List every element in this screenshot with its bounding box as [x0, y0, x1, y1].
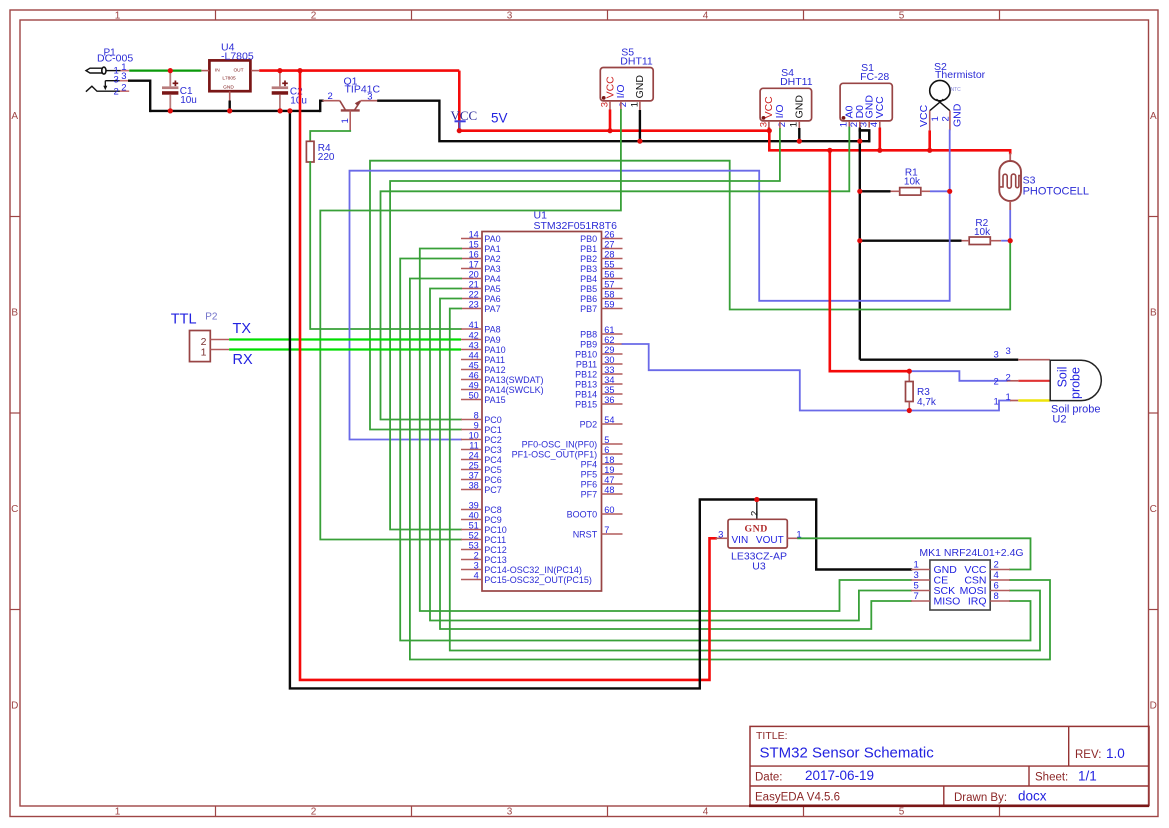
U1 pin 5 PF0-OSC_IN(PF0) — [602, 443, 623, 445]
U1 pin 30 PB11 — [602, 363, 623, 365]
wire red S2.VCC — [928, 130, 931, 150]
svg-text:PB14: PB14 — [575, 389, 597, 399]
U4 IN stub — [201, 70, 209, 72]
svg-text:5: 5 — [899, 806, 905, 817]
svg-text:8: 8 — [994, 591, 999, 602]
MK1 pin 8 IRQ — [990, 600, 1010, 602]
svg-text:29: 29 — [604, 345, 614, 355]
svg-text:PF4: PF4 — [581, 459, 598, 469]
svg-text:PB11: PB11 — [576, 359, 597, 369]
svg-text:IN: IN — [215, 68, 220, 74]
junction C1 top on +9V input — [168, 68, 173, 73]
junction R2 left on black vertical — [857, 238, 862, 243]
svg-text:C: C — [11, 504, 18, 515]
svg-text:GND: GND — [794, 95, 806, 119]
svg-text:47: 47 — [604, 475, 614, 485]
svg-text:PC5: PC5 — [484, 465, 502, 475]
svg-text:PC10: PC10 — [484, 525, 507, 535]
svg-text:PA10: PA10 — [484, 345, 505, 355]
U1 pin 23 PA7 — [461, 308, 482, 310]
svg-text:18: 18 — [604, 455, 614, 465]
svg-text:8: 8 — [474, 411, 479, 421]
U1 pin 43 PA10 — [461, 349, 482, 351]
junction S4 GND on GND bus — [797, 139, 802, 144]
svg-text:1: 1 — [789, 122, 800, 127]
title block — [750, 726, 1149, 805]
wire red S1.VCC — [878, 128, 881, 151]
svg-text:36: 36 — [604, 395, 614, 405]
connector S1 FC-28 — [840, 83, 892, 121]
svg-text:GND: GND — [223, 85, 234, 91]
MK1 pin 3 CE — [911, 579, 930, 581]
U1 pin 54 PD2 — [602, 423, 623, 425]
svg-text:3: 3 — [474, 561, 479, 571]
U1 pin 62 PB9 — [602, 343, 623, 345]
svg-text:58: 58 — [604, 290, 614, 300]
svg-text:D: D — [1150, 700, 1157, 711]
wire bright green RX to PA10 — [229, 348, 461, 350]
svg-text:35: 35 — [604, 385, 614, 395]
svg-text:PC8: PC8 — [484, 505, 502, 515]
wire green PA7 to MK1.MOSI — [450, 309, 1040, 651]
U1 pin 51 PC10 — [461, 529, 482, 531]
U1 pin 38 PC7 — [461, 489, 482, 491]
svg-text:2017-06-19: 2017-06-19 — [805, 768, 874, 783]
wire black P1.3 to GND bus — [129, 81, 150, 111]
svg-text:33: 33 — [604, 365, 614, 375]
svg-text:220: 220 — [318, 152, 335, 163]
svg-text:IRQ: IRQ — [968, 596, 987, 608]
svg-text:PHOTOCELL: PHOTOCELL — [1023, 185, 1089, 197]
capacitor C2 10u — [279, 71, 281, 87]
svg-text:docx: docx — [1018, 789, 1047, 804]
junction GND bus to bottom feed — [287, 108, 292, 113]
svg-text:44: 44 — [469, 351, 479, 361]
junction 5V rail to bottom feed — [297, 68, 302, 73]
svg-text:GND: GND — [951, 103, 963, 127]
connector P2 TTL — [190, 331, 211, 362]
svg-text:49: 49 — [469, 381, 479, 391]
svg-text:PB2: PB2 — [580, 254, 597, 264]
svg-text:STM32 Sensor Schematic: STM32 Sensor Schematic — [760, 745, 935, 762]
junction S5 VCC on 5V bus — [607, 128, 612, 133]
svg-text:24: 24 — [469, 451, 479, 461]
svg-text:PA5: PA5 — [484, 284, 500, 294]
svg-text:39: 39 — [469, 501, 479, 511]
svg-text:PB4: PB4 — [580, 274, 597, 284]
svg-text:PC13: PC13 — [484, 555, 507, 565]
svg-text:A: A — [11, 111, 18, 122]
wire black to R1 — [860, 190, 891, 192]
svg-text:TTL: TTL — [171, 312, 197, 328]
svg-text:C: C — [1150, 504, 1157, 515]
U1 pin 56 PB4 — [602, 278, 623, 280]
wire yellow soil probe pin1 — [1018, 399, 1050, 401]
svg-text:Sheet:: Sheet: — [1035, 772, 1068, 784]
svg-text:PB0: PB0 — [580, 234, 597, 244]
U1 pin 20 PA4 — [461, 278, 482, 280]
wire red 5V rail down-around to U3.VIN — [300, 71, 716, 680]
regulator U4 -L7805 box — [209, 60, 250, 91]
svg-text:NRST: NRST — [573, 529, 598, 539]
svg-text:21: 21 — [469, 280, 479, 290]
wire blue R2 to S3 — [1001, 240, 1010, 242]
svg-text:1: 1 — [1006, 392, 1011, 403]
svg-text:PC6: PC6 — [484, 475, 502, 485]
svg-text:PA4: PA4 — [484, 274, 500, 284]
svg-text:PC1: PC1 — [484, 425, 502, 435]
svg-text:VCC: VCC — [918, 104, 930, 127]
svg-text:4: 4 — [994, 570, 999, 581]
svg-text:50: 50 — [469, 391, 479, 401]
svg-text:RX: RX — [233, 352, 253, 368]
U1 pin 47 PF6 — [602, 483, 623, 485]
U1 pin 44 PA11 — [461, 359, 482, 361]
svg-text:25: 25 — [469, 461, 479, 471]
svg-text:PF0-OSC_IN(PF0): PF0-OSC_IN(PF0) — [522, 439, 598, 449]
svg-text:U3: U3 — [752, 561, 766, 573]
U1 pin 52 PC11 — [461, 539, 482, 541]
svg-text:VIN: VIN — [732, 535, 749, 546]
svg-text:10: 10 — [469, 431, 479, 441]
svg-text:VOUT: VOUT — [756, 535, 784, 546]
svg-text:U2: U2 — [1052, 414, 1066, 426]
U1 pin 18 PF4 — [602, 463, 623, 465]
svg-text:2: 2 — [311, 806, 317, 817]
svg-text:DHT11: DHT11 — [780, 76, 813, 88]
svg-text:probe: probe — [1069, 367, 1083, 399]
U1 pin 26 PB0 — [602, 238, 623, 240]
svg-text:43: 43 — [469, 341, 479, 351]
svg-text:60: 60 — [604, 505, 614, 515]
U1 pin 16 PA2 — [461, 258, 482, 260]
U1 pin 8 PC0 — [461, 419, 482, 421]
connector S4 DHT11 — [760, 88, 812, 121]
svg-text:2: 2 — [750, 511, 761, 516]
U1 pin 35 PB14 — [602, 393, 623, 395]
wire black Q1.3 collector to sensor GND bus — [378, 101, 869, 142]
U1 pin 11 PC3 — [461, 449, 482, 451]
svg-text:PC11: PC11 — [484, 535, 506, 545]
U4 GND pin — [229, 91, 231, 100]
svg-text:PC15-OSC32_OUT(PC15): PC15-OSC32_OUT(PC15) — [484, 575, 592, 585]
svg-text:D: D — [11, 700, 18, 711]
wire blue R3 top to soil probe pin2 — [909, 371, 1006, 381]
svg-text:4: 4 — [703, 806, 709, 817]
svg-text:PB3: PB3 — [580, 264, 597, 274]
wire green S1.A0 to PC0 — [381, 128, 850, 420]
svg-text:MISO: MISO — [934, 596, 961, 608]
U1 pin 59 PB7 — [602, 308, 623, 310]
svg-text:B: B — [11, 307, 18, 318]
U1 pin 61 PB8 — [602, 333, 623, 335]
svg-text:1: 1 — [914, 559, 919, 570]
svg-text:PA14(SWCLK): PA14(SWCLK) — [484, 385, 543, 395]
regulator U3 LE33CZ-AP — [728, 519, 787, 548]
wire black GND rail down-around to MK1.GND — [290, 111, 911, 689]
MK1 pin 1 GND — [911, 569, 930, 571]
svg-text:56: 56 — [604, 270, 614, 280]
svg-text:PB12: PB12 — [575, 369, 597, 379]
wire red VCC bus to sensors — [459, 129, 769, 132]
svg-text:-L7805: -L7805 — [221, 51, 254, 63]
wire red VCC drop to R3 — [830, 150, 910, 371]
soil probe U2 — [1018, 359, 1050, 361]
wire green R4 to PA8 — [310, 162, 461, 329]
svg-text:1: 1 — [115, 10, 121, 21]
svg-text:2: 2 — [994, 559, 999, 570]
U1 pin 57 PB5 — [602, 288, 623, 290]
svg-text:4: 4 — [703, 10, 709, 21]
U1 pin 10 PC2 — [461, 439, 482, 441]
svg-text:3: 3 — [1006, 346, 1011, 357]
junction VCC flag on 5V bus — [457, 128, 462, 133]
svg-text:PB10: PB10 — [575, 349, 597, 359]
svg-text:B: B — [1150, 307, 1157, 318]
svg-text:PA11: PA11 — [484, 355, 505, 365]
svg-text:62: 62 — [604, 335, 614, 345]
wire blue S2.GND down to R1 and PC2 — [350, 130, 950, 439]
svg-text:53: 53 — [469, 541, 479, 551]
svg-text:2: 2 — [777, 122, 788, 127]
wire green PA5 to MK1.SCK — [430, 289, 911, 621]
svg-text:3: 3 — [114, 75, 119, 86]
svg-text:19: 19 — [604, 465, 614, 475]
U1 pin 34 PB13 — [602, 383, 623, 385]
U1 pin 27 PB1 — [602, 248, 623, 250]
svg-text:15: 15 — [469, 240, 479, 250]
U1 pin 50 PA15 — [461, 399, 482, 401]
svg-text:PA8: PA8 — [484, 324, 500, 334]
junction R3 feed on lower VCC bus — [827, 148, 832, 153]
U1 pin 29 PB10 — [602, 353, 623, 355]
svg-text:PA7: PA7 — [484, 304, 500, 314]
U1 pin 15 PA1 — [461, 248, 482, 250]
svg-text:37: 37 — [469, 471, 479, 481]
svg-text:VCC: VCC — [874, 96, 886, 119]
svg-text:A: A — [1150, 111, 1157, 122]
svg-text:59: 59 — [604, 300, 614, 310]
svg-text:57: 57 — [604, 280, 614, 290]
transistor Q1 TIP41C — [323, 100, 340, 102]
svg-text:10k: 10k — [974, 227, 991, 238]
svg-text:1: 1 — [994, 397, 999, 408]
svg-text:1: 1 — [839, 122, 850, 127]
connector S5 DHT11 — [600, 68, 653, 101]
svg-text:22: 22 — [469, 290, 479, 300]
U1 pin 3 PC14-OSC32_IN(PC14) — [461, 569, 482, 571]
wire black S1.D0 to soil probe pin3 — [860, 359, 1019, 361]
svg-text:Date:: Date: — [755, 771, 783, 783]
svg-text:1.0: 1.0 — [1106, 746, 1125, 761]
U3 GND pin stub — [756, 500, 758, 520]
wire black S1.GND jog — [860, 130, 869, 141]
U1 pin 53 PC12 — [461, 549, 482, 551]
svg-text:3: 3 — [758, 122, 769, 127]
wire black S1.D0 down — [859, 128, 861, 360]
svg-text:PA1: PA1 — [484, 244, 500, 254]
svg-text:EasyEDA V4.5.6: EasyEDA V4.5.6 — [755, 792, 840, 804]
svg-text:PF5: PF5 — [581, 469, 598, 479]
svg-text:PC3: PC3 — [484, 445, 502, 455]
U1 pin 45 PA12 — [461, 369, 482, 371]
U4 OUT stub — [251, 70, 259, 72]
svg-text:PA12: PA12 — [484, 365, 505, 375]
MK1 pin 7 MISO — [911, 600, 930, 602]
svg-text:23: 23 — [469, 300, 479, 310]
svg-text:3: 3 — [994, 350, 999, 361]
svg-text:PA3: PA3 — [484, 264, 500, 274]
P1 switch arrow — [104, 81, 106, 88]
svg-text:5: 5 — [604, 435, 609, 445]
svg-text:3: 3 — [367, 91, 372, 102]
resistor R3 4,7k — [908, 371, 910, 381]
U1 pin 14 PA0 — [461, 238, 482, 240]
svg-text:4: 4 — [869, 122, 880, 127]
svg-text:PB1: PB1 — [580, 244, 597, 254]
module MK1 NRF24L01+2.4G — [930, 560, 990, 610]
svg-text:I/O: I/O — [774, 104, 786, 118]
svg-text:DC-005: DC-005 — [97, 53, 133, 65]
U1 pin 55 PB3 — [602, 268, 623, 270]
U1 pin 42 PA9 — [461, 339, 482, 341]
svg-text:1: 1 — [115, 806, 121, 817]
svg-text:10k: 10k — [904, 176, 921, 187]
U1 pin 33 PB12 — [602, 373, 623, 375]
svg-text:10u: 10u — [180, 95, 197, 106]
svg-text:Thermistor: Thermistor — [935, 69, 986, 81]
U1 pin 9 PC1 — [461, 429, 482, 431]
U1 pin 25 PC5 — [461, 469, 482, 471]
wire black to R2 — [860, 239, 962, 241]
junction S2 VCC on lower VCC bus — [927, 148, 932, 153]
svg-text:Drawn By:: Drawn By: — [954, 792, 1007, 804]
svg-text:4: 4 — [474, 571, 479, 581]
svg-text:30: 30 — [604, 355, 614, 365]
svg-text:2: 2 — [1006, 373, 1011, 384]
svg-text:PA13(SWDAT): PA13(SWDAT) — [484, 375, 543, 385]
svg-text:TITLE:: TITLE: — [756, 730, 788, 742]
U1 pin 22 PA6 — [461, 298, 482, 300]
svg-text:1: 1 — [930, 116, 941, 121]
svg-text:GND: GND — [745, 524, 768, 535]
svg-text:55: 55 — [604, 260, 614, 270]
S5 pin stubs — [609, 101, 611, 110]
svg-text:PA6: PA6 — [484, 294, 500, 304]
wire blue R1 to S2.GND net — [930, 190, 950, 192]
svg-text:2: 2 — [114, 86, 119, 97]
wire green PA1 to MK1.CE — [420, 249, 911, 612]
svg-text:7: 7 — [604, 525, 609, 535]
MK1 pin 2 VCC — [990, 569, 1010, 571]
wire blue PB9 to soil probe pin1 — [623, 344, 1011, 411]
svg-text:P2: P2 — [205, 312, 218, 323]
svg-text:46: 46 — [469, 371, 479, 381]
U1 pin 2 PC13 — [461, 559, 482, 561]
resistor R4 220 — [306, 141, 314, 162]
svg-text:PB13: PB13 — [575, 379, 597, 389]
svg-text:3: 3 — [507, 806, 513, 817]
wire red VCC bus drop at S4 — [768, 131, 771, 151]
svg-text:26: 26 — [604, 230, 614, 240]
svg-text:TX: TX — [233, 321, 252, 337]
wire bright green TX to PA9 — [229, 338, 461, 340]
svg-text:45: 45 — [469, 361, 479, 371]
U1 pin 36 PB15 — [602, 403, 623, 405]
svg-text:1: 1 — [629, 102, 640, 107]
svg-text:PB5: PB5 — [580, 284, 597, 294]
svg-text:2: 2 — [328, 91, 333, 102]
svg-text:3: 3 — [121, 71, 126, 82]
junction C2 bottom on GND bus — [278, 108, 283, 113]
svg-text:2: 2 — [618, 102, 629, 107]
junction R1 right on S2 GND net — [947, 189, 952, 194]
resistor R2 10k — [969, 237, 990, 245]
svg-text:PC7: PC7 — [484, 485, 502, 495]
svg-text:PB6: PB6 — [580, 294, 597, 304]
svg-text:2: 2 — [474, 551, 479, 561]
svg-text:PC9: PC9 — [484, 515, 502, 525]
junction R1 left on black vertical — [857, 189, 862, 194]
svg-text:41: 41 — [469, 320, 479, 330]
svg-text:2: 2 — [994, 377, 999, 388]
svg-text:51: 51 — [469, 521, 479, 531]
svg-text:PB15: PB15 — [575, 399, 597, 409]
svg-text:52: 52 — [469, 531, 479, 541]
junction C1 bottom on GND bus — [168, 108, 173, 113]
U1 pin 37 PC6 — [461, 479, 482, 481]
U1 pin 60 BOOT0 — [602, 513, 623, 515]
MK1 pin 6 MOSI — [990, 590, 1010, 592]
U1 pin 58 PB6 — [602, 298, 623, 300]
wire red S5.VCC — [609, 110, 612, 131]
svg-text:PF6: PF6 — [581, 479, 598, 489]
svg-text:1: 1 — [201, 347, 207, 359]
MK1 pin 4 CSN — [990, 579, 1010, 581]
capacitor C1 10u — [169, 71, 171, 87]
svg-text:3: 3 — [914, 570, 919, 581]
P1 pin 3 line — [105, 80, 120, 82]
svg-text:PC12: PC12 — [484, 545, 507, 555]
S2 pin stubs — [929, 111, 931, 131]
svg-text:PB9: PB9 — [580, 339, 597, 349]
svg-text:54: 54 — [604, 415, 614, 425]
svg-text:PB7: PB7 — [580, 304, 597, 314]
P1 pin 1 stub — [121, 70, 130, 72]
svg-text:6: 6 — [604, 445, 609, 455]
photocell S3 — [1009, 153, 1011, 161]
svg-text:3: 3 — [718, 530, 723, 541]
MCU U1 STM32F051R8T6 — [482, 232, 602, 592]
U1 pin 28 PB2 — [602, 258, 623, 260]
svg-text:PC14-OSC32_IN(PC14): PC14-OSC32_IN(PC14) — [484, 565, 582, 575]
wire red lower VCC bus — [769, 150, 1010, 153]
svg-text:17: 17 — [469, 260, 479, 270]
wire red S4.VCC — [768, 128, 771, 131]
U1 pin 24 PC4 — [461, 459, 482, 461]
svg-text:NTC: NTC — [951, 87, 962, 93]
svg-text:1: 1 — [340, 118, 351, 123]
U1 pin 6 PF1-OSC_OUT(PF1) — [602, 453, 623, 455]
wire red VCC drop — [458, 71, 461, 131]
svg-text:PA9: PA9 — [484, 335, 500, 345]
U1 pin 49 PA14(SWCLK) — [461, 389, 482, 391]
svg-text:42: 42 — [469, 331, 479, 341]
wire green PA4 to MK1.CSN — [410, 279, 1050, 660]
svg-text:BOOT0: BOOT0 — [567, 509, 598, 519]
U1 pin 39 PC8 — [461, 509, 482, 511]
svg-text:5: 5 — [914, 580, 919, 591]
